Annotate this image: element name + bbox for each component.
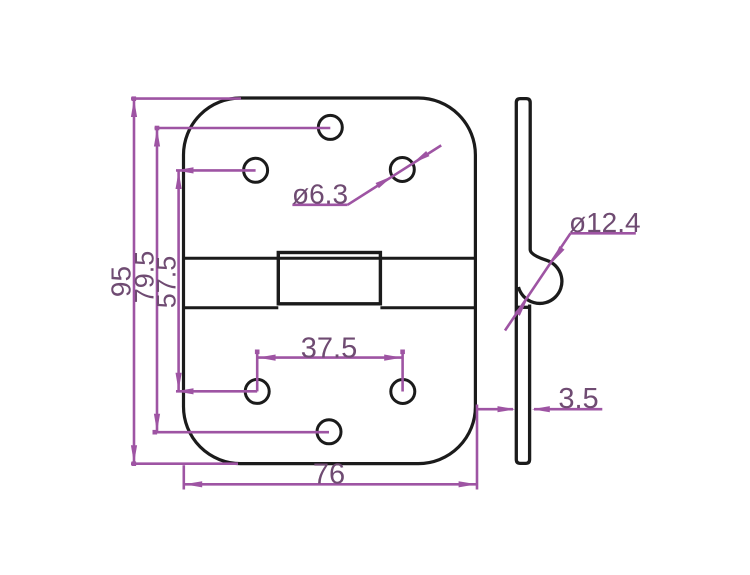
junction dot top [132, 96, 137, 101]
side view plate outline [516, 99, 530, 464]
extension line bottom hole [155, 431, 330, 434]
svg-text:57.5: 57.5 [152, 256, 182, 309]
junction dot 79.5 top [155, 126, 160, 131]
hole row4 right [391, 380, 415, 404]
hinge joint line lower left segment [185, 306, 278, 309]
dia 6.3 leader line [348, 145, 442, 204]
hole row2 left [244, 158, 268, 182]
dim 37.5 arrow left [258, 355, 276, 361]
extension line bottom edge [131, 462, 238, 465]
svg-text:ø6.3: ø6.3 [292, 179, 348, 210]
dim 95 arrow down [131, 445, 137, 463]
extension line row4 hole [176, 390, 257, 393]
hole row2 right [390, 158, 414, 182]
dim 3.5 arrow left-pointing [532, 406, 550, 412]
dim 57.5 arrow down [176, 373, 182, 391]
svg-text:ø12.4: ø12.4 [569, 207, 641, 238]
dim 76 arrow left [184, 481, 202, 487]
hole bottom center [317, 420, 341, 444]
extension line top edge [131, 97, 241, 100]
dim 76 arrow right [459, 481, 477, 487]
junction dot 79.5 bottom [153, 430, 158, 435]
dim 79.5 arrow up [154, 129, 160, 147]
dim 95 arrow up [131, 99, 137, 117]
dia 12.4 arrow upper [549, 246, 564, 264]
side view line under bump [516, 306, 528, 309]
svg-text:37.5: 37.5 [301, 332, 357, 364]
extension line top hole [155, 127, 331, 130]
dim 57.5 arrow up [176, 171, 182, 189]
dim 37.5 arrow right [384, 355, 402, 361]
knuckle rectangle [278, 253, 380, 304]
hole top center [318, 115, 342, 139]
junction dot bottom [132, 461, 137, 466]
svg-text:76: 76 [313, 458, 345, 490]
dim 76 extension left [183, 465, 186, 489]
dimension 3.5 line left part [477, 408, 513, 411]
dia 6.3 arrow lower-left [376, 173, 395, 188]
dim 76 extension right [476, 405, 479, 490]
extension row2 left arrow [176, 167, 194, 173]
dimension 76 line [184, 483, 477, 486]
dimension 3.5 line right part [534, 408, 602, 411]
svg-text:3.5: 3.5 [558, 383, 598, 415]
dim 37.5 extension left [256, 352, 259, 392]
dim 3.5 arrow right-pointing [498, 406, 516, 412]
dimension 57.5 line [177, 171, 180, 392]
side view knuckle bump [518, 250, 561, 304]
hinge joint line upper (full width) [185, 257, 474, 260]
dia 6.3 arrow upper-right [411, 151, 430, 166]
dia 12.4 underline [571, 232, 636, 235]
dimension 79.5 line [156, 128, 159, 432]
dim 37.5 extension right [401, 352, 404, 392]
dimension 37.5 line [257, 356, 402, 359]
dia 6.3 underline [292, 204, 347, 207]
dimension 95 line [133, 99, 136, 464]
front view plate outline [184, 98, 476, 464]
dia 12.4 arrow lower [515, 297, 530, 315]
dim 79.5 arrow down [154, 414, 160, 432]
dim 37.5 ext dot right [400, 350, 405, 355]
hinge joint line lower right segment [380, 306, 474, 309]
extension line row2 hole [176, 169, 256, 172]
hole row4 left [245, 379, 269, 403]
extension row4 left arrow [176, 388, 194, 394]
dia 12.4 leader line [505, 233, 571, 330]
dim 37.5 ext dot left [255, 350, 260, 355]
